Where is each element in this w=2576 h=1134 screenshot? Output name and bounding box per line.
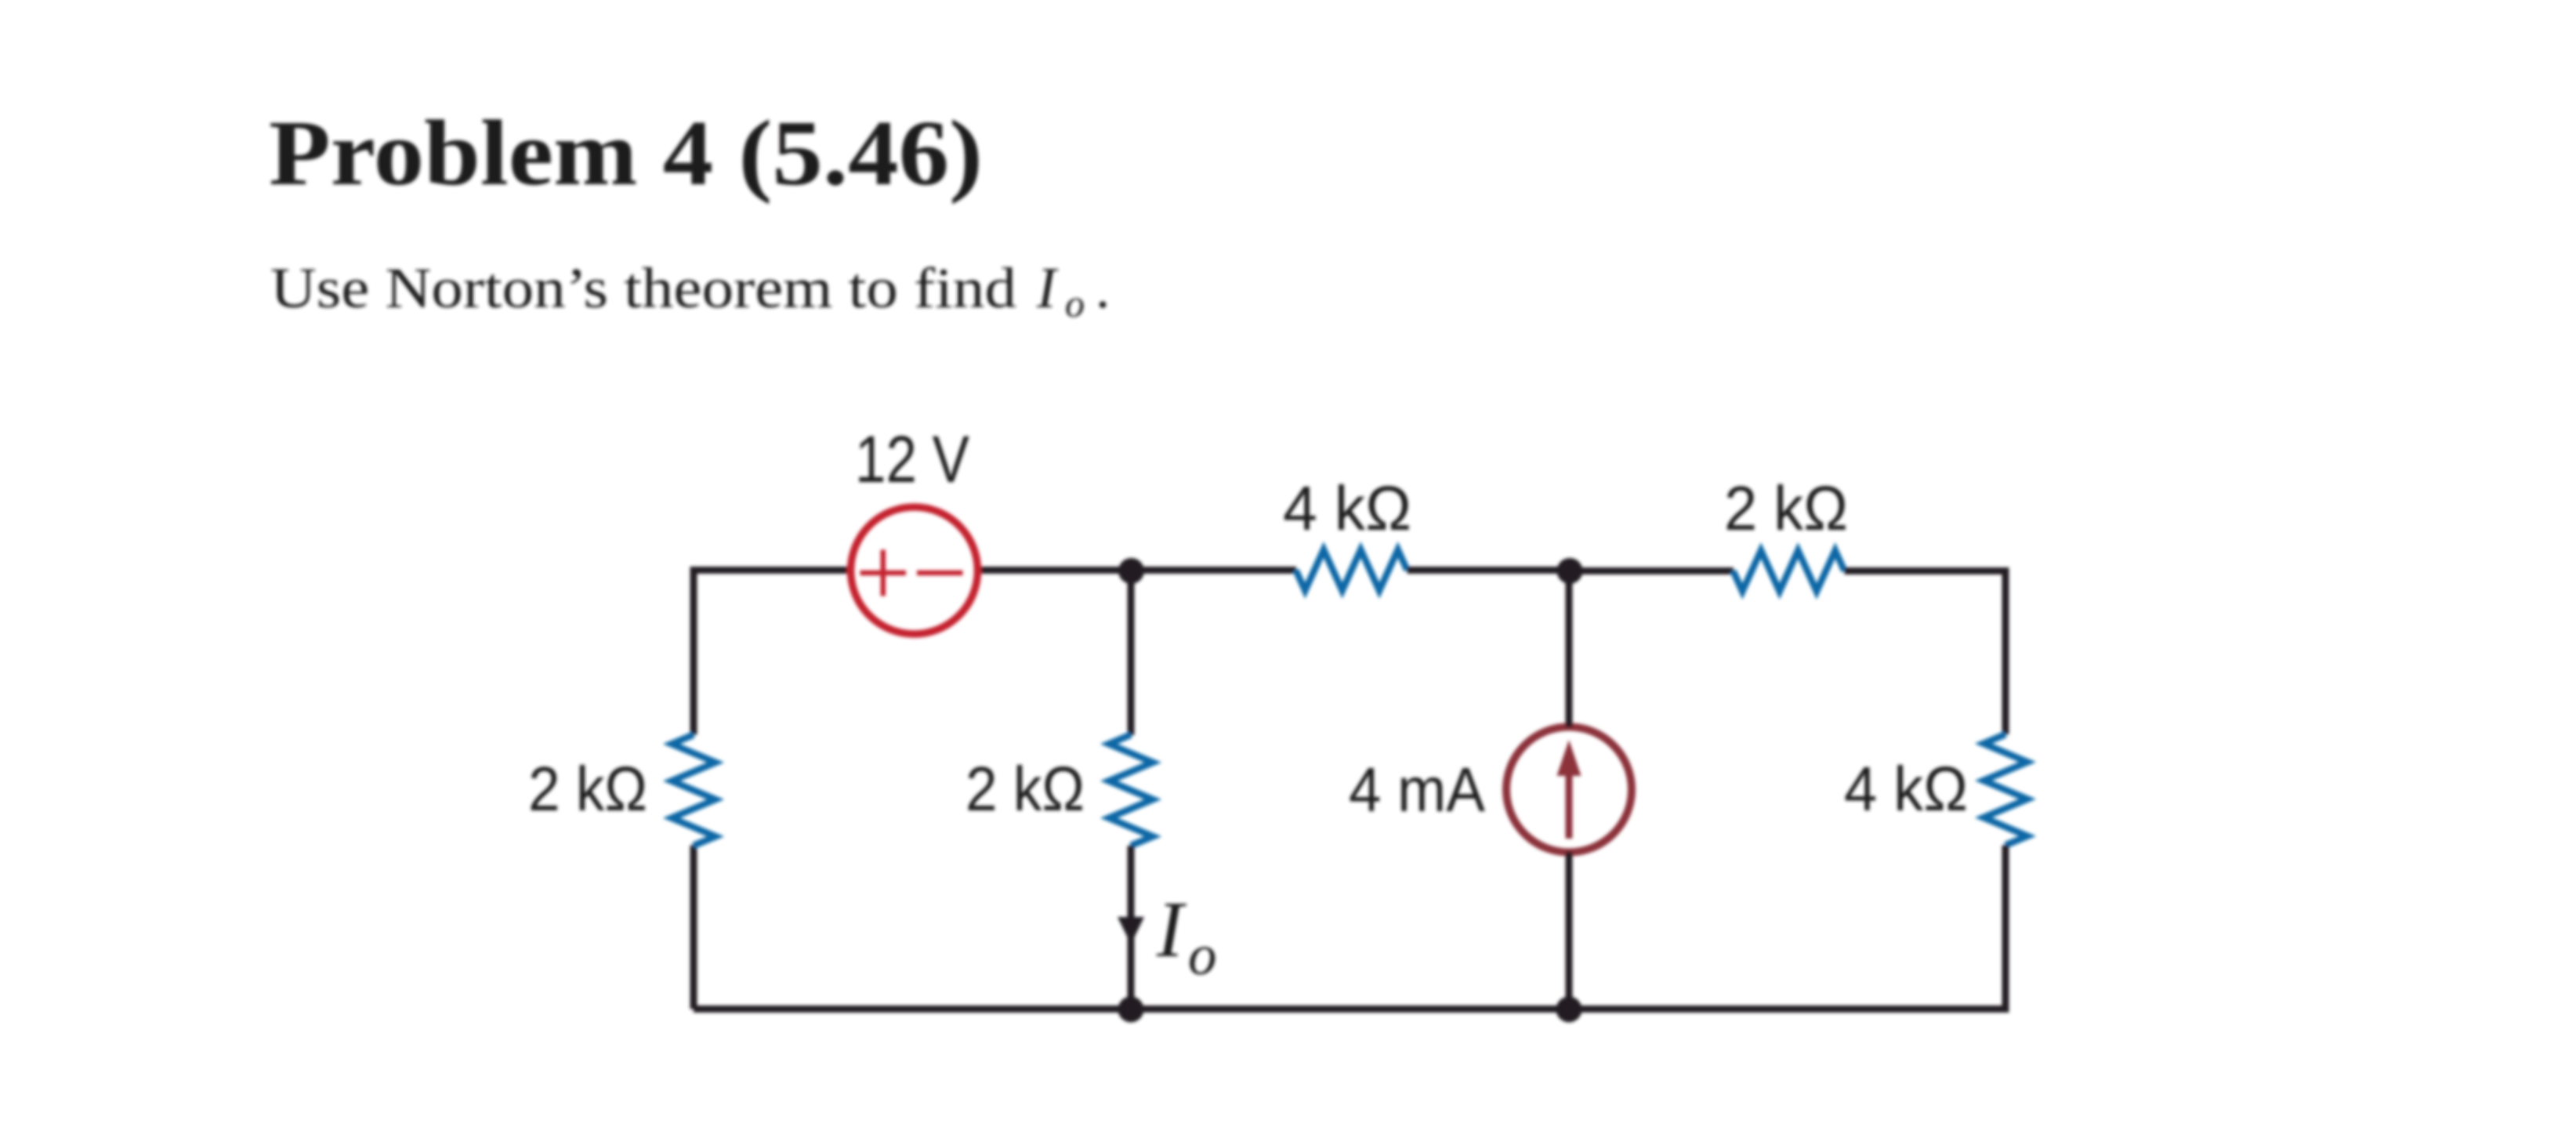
wire: right resistor to bottom-right corner to bottom node D	[1569, 846, 2005, 1009]
svg-text:Use Norton’s theorem to findIo: Use Norton’s theorem to findIo.	[270, 256, 1110, 325]
resistor R3 4 kOhm (right vertical)	[1984, 734, 2027, 846]
svg-text:4 mA: 4 mA	[1349, 755, 1486, 824]
node A (top middle junction)	[1118, 558, 1144, 584]
current arrow Io on middle branch	[1118, 917, 1144, 944]
svg-text:2 kΩ: 2 kΩ	[528, 754, 647, 824]
wire: 4k resistor to node B	[1408, 567, 1571, 574]
svg-text:12 V: 12 V	[855, 422, 969, 496]
node B (top junction above current source)	[1557, 558, 1583, 584]
wire: left branch below resistor to bottom-left corner	[690, 846, 697, 1009]
wire: 2k resistor to top-right corner down to right resistor	[1845, 571, 2006, 735]
node D (bottom junction below current source)	[1556, 997, 1582, 1023]
V1 plus terminal	[860, 550, 907, 596]
voltage source V1 12V circle	[851, 507, 978, 634]
wire: top-left segment from left corner to voltage source	[694, 571, 847, 735]
resistor R2 2 kOhm (top right horizontal)	[1734, 551, 1845, 592]
svg-text:2 kΩ: 2 kΩ	[966, 754, 1085, 824]
wire: middle branch from node A down to middle resistor	[1128, 571, 1135, 736]
svg-text:2 kΩ: 2 kΩ	[1724, 473, 1848, 543]
V1 minus terminal	[917, 571, 963, 576]
wire: middle resistor down to node C	[1128, 846, 1135, 1009]
current source I1 4 mA circle	[1506, 727, 1632, 853]
wire: node B to 2k resistor	[1570, 567, 1734, 574]
resistor R4 2 kOhm (left vertical)	[672, 735, 716, 846]
svg-text:4 kΩ: 4 kΩ	[1844, 754, 1968, 824]
node C (bottom junction below middle branch)	[1118, 997, 1144, 1023]
wire below current source	[1566, 852, 1573, 1009]
wire: bottom from node C to bottom-left corner	[694, 1005, 1131, 1013]
resistor R1 4 kOhm (top horizontal)	[1296, 550, 1408, 591]
I1 arrow (up)	[1557, 740, 1581, 839]
wire: node A to 4k resistor	[1131, 567, 1296, 574]
resistor R5 2 kOhm (middle vertical)	[1109, 735, 1153, 846]
wire: bottom from node D to node C	[1131, 1005, 1569, 1013]
wire: voltage source to node A	[981, 567, 1131, 574]
wire: current source branch (node B down to circle, circle down to node D)	[1566, 571, 1573, 728]
svg-text:Problem 4 (5.46): Problem 4 (5.46)	[269, 101, 983, 205]
svg-text:4 kΩ: 4 kΩ	[1283, 473, 1411, 543]
